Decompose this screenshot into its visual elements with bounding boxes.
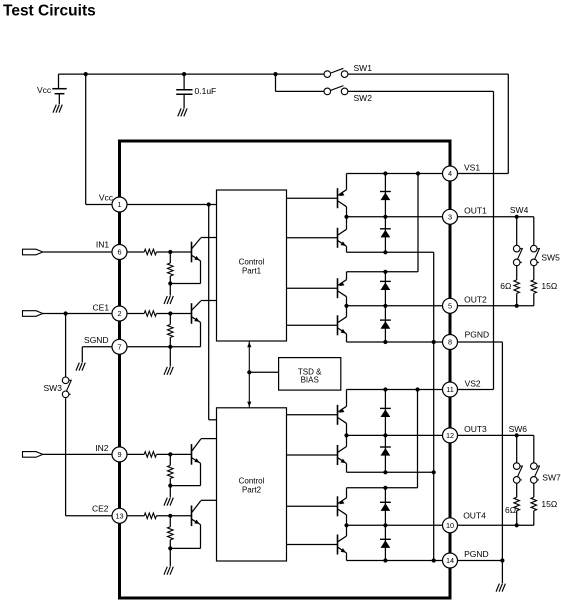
svg-text:13: 13 — [115, 511, 123, 520]
wire: pulldown top (CE1) — [169, 314, 171, 325]
transistor Q11 (IN2 input) — [192, 439, 201, 465]
junction: CE1 / SW3 branch — [64, 311, 68, 315]
junction: PGND2 / long vertical — [432, 558, 436, 562]
wire: emitter rail 2 — [347, 471, 434, 473]
svg-text:OUT4: OUT4 — [463, 511, 486, 521]
wire: SW6 to 6ohm resistor — [516, 483, 518, 497]
wire: pin10 OUT4 out — [458, 524, 534, 526]
junction: Vcc rail / SW2 branch — [273, 72, 277, 76]
wire: PGND rail 2 — [347, 560, 443, 562]
junction: PGND2 / ground vertical — [500, 558, 504, 562]
svg-text:OUT2: OUT2 — [464, 294, 487, 304]
svg-text:8: 8 — [448, 338, 452, 347]
wire: SW6 branch upper — [516, 435, 518, 463]
wire: emitter vertical (IN1) — [200, 261, 202, 284]
wire: pin11 VS2 out — [458, 389, 494, 391]
switch SW2 — [324, 86, 348, 95]
junction: CE2 base / pulldown — [168, 514, 172, 518]
svg-text:10: 10 — [446, 521, 454, 530]
junction: CE1 emitter node — [168, 345, 172, 349]
transistor Q4 (NPN low-side OUT2) — [338, 306, 347, 342]
wire: bridge4 VS rail — [347, 487, 418, 489]
svg-text:3: 3 — [448, 212, 452, 221]
resistor R2 pulldown (IN1) — [168, 263, 174, 276]
diode D4 — [380, 306, 391, 342]
transistor Q6 (NPN low-side OUT3) — [338, 435, 347, 472]
resistor R7 series (CE2) — [144, 513, 156, 519]
svg-text:12: 12 — [446, 431, 454, 440]
transistor Q7 (PNP high-side OUT4) — [338, 488, 347, 526]
resistor 15 ohm (ch2) — [531, 497, 537, 511]
switch SW7 — [531, 463, 540, 483]
junction: OUT3 / Q5-Q6 — [344, 433, 348, 437]
junction: VS1 / feed to lower bridge — [416, 171, 420, 175]
wire: SW5 branch upper — [533, 217, 535, 246]
svg-text:CE1: CE1 — [93, 302, 110, 312]
wire: emitter node to ground (CE1) — [169, 347, 171, 367]
svg-text:2: 2 — [117, 309, 121, 318]
svg-text:PGND: PGND — [464, 549, 489, 559]
wire: collector to control box (CE1) — [201, 300, 217, 302]
ground CE1 stage — [164, 367, 173, 375]
junction: OUT1 / Q1-Q2 — [344, 215, 348, 219]
wire: SGND down to ground — [81, 347, 83, 362]
diode D2 — [380, 217, 391, 253]
svg-text:IN2: IN2 — [95, 443, 109, 453]
wire: OUT3 rail — [347, 434, 443, 436]
wire: pulldown top (CE2) — [169, 516, 171, 527]
svg-text:7: 7 — [117, 342, 121, 351]
input flag CE1 — [23, 311, 43, 317]
pin 14 PGND — [443, 553, 458, 568]
wire: 6ohm to OUT4 — [516, 511, 518, 526]
ground under 0.1uF cap — [178, 108, 187, 116]
wire: 15ohm to OUT2 — [533, 293, 535, 305]
pin 8 PGND — [443, 335, 458, 350]
junction: VS2 / diode D5 — [383, 387, 387, 391]
transistor Q3 (PNP high-side OUT2) — [338, 272, 347, 306]
wire: Vcc vertical to Part2 — [208, 205, 210, 420]
pin 7 SGND — [112, 339, 127, 354]
svg-text:CE2: CE2 — [92, 504, 109, 514]
wire: OUT2 rail — [347, 305, 443, 307]
transistor Q2 (NPN low-side OUT1) — [338, 217, 347, 253]
wire: OUT1 rail — [347, 216, 443, 218]
svg-text:6Ω: 6Ω — [505, 505, 516, 515]
wire: VS2 rail — [347, 389, 443, 391]
resistor 6 ohm (ch1) — [514, 280, 520, 294]
wire: Vcc branch to pin1 — [86, 204, 112, 206]
wire: pin5 OUT2 out — [458, 305, 534, 307]
svg-text:PGND: PGND — [465, 330, 490, 340]
IC package outline — [120, 141, 451, 598]
wire: PGND vertical to ground — [501, 342, 503, 583]
wire: pulldown bottom (CE2) — [169, 540, 171, 549]
svg-text:SW3: SW3 — [44, 383, 63, 393]
transistor Q8 (NPN low-side OUT4) — [338, 525, 347, 560]
transistor Q10 (CE1 input) — [192, 301, 201, 324]
pin 6 IN1 — [112, 245, 127, 260]
wire: base drive to Q8 — [287, 544, 338, 546]
wire: pin14 PGND out — [458, 560, 503, 562]
junction: IN2 emitter node — [168, 484, 172, 488]
wire: emitter row (IN2) — [170, 485, 200, 487]
wire: pin to series resistor (IN1) — [127, 251, 144, 253]
wire: SGND left segment — [82, 346, 112, 348]
wire: CE1 down to SW3 — [65, 314, 67, 378]
svg-text:6Ω: 6Ω — [500, 281, 511, 291]
diode D1 — [380, 174, 391, 217]
wire: base drive to Q7 — [287, 505, 338, 507]
resistor R4 pulldown (CE1) — [168, 325, 174, 338]
svg-text:1: 1 — [117, 200, 121, 209]
diode D5 — [380, 390, 391, 436]
switch SW5 — [531, 245, 540, 265]
wire: pin4 VS1 out — [458, 173, 509, 175]
junction: PGND1 / diode D4 — [383, 340, 387, 344]
junction: link / TSD&BIAS — [247, 370, 251, 374]
ground IN2 stage — [164, 498, 173, 506]
wire: base drive to Q4 — [287, 324, 338, 326]
junction: Vcc rail / 0.1uF cap — [182, 72, 186, 76]
wire: OUT4 rail — [347, 524, 443, 526]
svg-text:SW6: SW6 — [509, 424, 528, 434]
battery Vcc (supply symbol) — [52, 89, 66, 94]
switch SW4 — [513, 245, 522, 265]
diode D8 — [380, 525, 391, 560]
block TSD & BIAS — [279, 358, 341, 391]
junction: bridge4 rail / diode D7 — [383, 486, 387, 490]
svg-text:VS1: VS1 — [464, 163, 480, 173]
wire: SGND row pin7 to CE1 emitter — [127, 346, 201, 348]
wire: resistor to base (CE1) — [156, 313, 191, 315]
diode D3 — [380, 272, 391, 306]
resistor R3 series (CE1) — [144, 311, 156, 317]
svg-text:OUT1: OUT1 — [464, 206, 487, 216]
junction: OUT3 / diode — [383, 433, 387, 437]
pin 5 OUT2 — [443, 298, 458, 313]
wire: 6ohm to OUT2 — [516, 293, 518, 305]
arrowhead up (to Part1) — [247, 342, 251, 347]
block Control Part1 — [217, 190, 287, 341]
wire: Vcc into Control Part2 — [209, 419, 217, 421]
block Control Part2 — [217, 408, 287, 561]
wire: VS feed vertical to bridge2 — [417, 174, 419, 272]
svg-text:14: 14 — [446, 556, 454, 565]
junction: CE2 emitter node — [168, 546, 172, 550]
svg-text:Vcc: Vcc — [99, 193, 114, 203]
junction: OUT3 / SW6 branch — [515, 433, 519, 437]
junction: IN2 base / pulldown — [168, 452, 172, 456]
wire: collector to control box (IN2) — [201, 438, 217, 440]
junction: OUT2 / Q3-Q4 — [344, 304, 348, 308]
junction: OUT4 / SW6 branch — [515, 523, 519, 527]
wire: pin to series resistor (CE2) — [127, 515, 144, 517]
pin 1 Vcc — [112, 197, 127, 212]
wire: pulldown bottom (IN1) — [169, 276, 171, 284]
wire: SW2 down to VS2 — [493, 91, 495, 389]
wire: emitter vertical (CE1) — [200, 322, 202, 347]
diode D6 — [380, 435, 391, 472]
wire: SW4 to 6ohm resistor — [516, 266, 518, 280]
wire: emitter rail 1 — [347, 251, 434, 253]
svg-text:OUT3: OUT3 — [464, 424, 487, 434]
wire: SW2 branch drop — [275, 74, 277, 91]
wire: SW1 down to VS1 — [507, 74, 509, 173]
svg-text:4: 4 — [448, 169, 452, 178]
pin 13 CE2 — [112, 508, 127, 523]
ground external SGND — [76, 363, 85, 371]
transistor Q5 (PNP high-side OUT3) — [338, 390, 347, 436]
wire: emitter node to ground (IN1) — [169, 284, 171, 296]
wire: base drive to Q3 — [287, 287, 338, 289]
wire: emitter vertical (IN2) — [200, 463, 202, 485]
wire: CE1 flag to pin2 — [43, 313, 112, 315]
svg-text:11: 11 — [446, 385, 454, 394]
junction: OUT4 / diode — [383, 523, 387, 527]
ground IN1 stage — [164, 296, 173, 304]
pin 11 VS2 — [443, 382, 458, 397]
ground PGND external — [496, 584, 505, 592]
wire: feed to SW2 — [276, 90, 324, 92]
wire: SW1 to right corner — [348, 73, 509, 75]
wire: bridge2 VS rail — [347, 271, 419, 273]
junction: VS2 / feed to lower bridge — [415, 387, 419, 391]
junction: OUT1 / diode — [383, 215, 387, 219]
wire: link to TSD&BIAS — [249, 371, 278, 373]
wire: pulldown bottom (CE1) — [169, 338, 171, 347]
wire: emitter node to ground (CE2) — [169, 548, 171, 566]
junction: OUT2 / SW4 branch — [515, 304, 519, 308]
pin 4 VS1 — [443, 166, 458, 181]
svg-text:SW7: SW7 — [542, 473, 561, 483]
input flag IN1 — [23, 249, 43, 255]
wire: Vcc source drop — [58, 74, 60, 89]
wire: base drive to Q6 — [287, 454, 338, 456]
wire: emitter rail down to PGND (long vertical) — [433, 252, 435, 560]
junction: IN1 emitter node — [168, 281, 172, 285]
junction: CE1 base / pulldown — [168, 311, 172, 315]
wire: VS1 rail — [347, 173, 443, 175]
wire: base drive to Q2 — [287, 237, 338, 239]
svg-text:6: 6 — [117, 248, 121, 257]
wire: emitter vertical (CE2) — [200, 525, 202, 549]
wire: collector to control box (CE2) — [201, 499, 217, 501]
junction: emitter rail 2 / diode D6 — [383, 470, 387, 474]
wire: Part1-Part2 link — [248, 341, 250, 408]
svg-text:IN1: IN1 — [96, 239, 110, 249]
wire: 15ohm to OUT4 — [533, 511, 535, 526]
svg-text:0.1uF: 0.1uF — [195, 86, 217, 96]
wire: SW5 to 15ohm resistor — [533, 266, 535, 280]
wire: resistor to base (IN2) — [156, 453, 191, 455]
pin 9 IN2 — [112, 447, 127, 462]
svg-text:Part2: Part2 — [242, 485, 262, 494]
wire: cap to ground — [183, 94, 185, 108]
switch SW6 — [513, 463, 522, 483]
svg-text:BIAS: BIAS — [301, 375, 319, 384]
wire: pulldown top (IN1) — [169, 252, 171, 263]
resistor R6 pulldown (IN2) — [168, 465, 174, 478]
wire: pulldown top (IN2) — [169, 454, 171, 465]
resistor R5 series (IN2) — [144, 452, 156, 458]
resistor R8 pulldown (CE2) — [168, 527, 174, 540]
svg-text:Part1: Part1 — [242, 266, 262, 275]
svg-text:15Ω: 15Ω — [541, 499, 557, 509]
junction: emitter rail 2 / long vertical — [432, 470, 436, 474]
junction: IN1 base / pulldown — [168, 250, 172, 254]
capacitor 0.1uF — [176, 90, 192, 94]
pin 10 OUT4 — [443, 518, 458, 533]
wire: pin3 OUT1 out — [458, 216, 534, 218]
pin 2 CE1 — [112, 306, 127, 321]
svg-text:Control: Control — [239, 476, 265, 485]
wire: pin8 PGND out — [458, 341, 503, 343]
pin 3 OUT1 — [443, 209, 458, 224]
wire: pulldown bottom (IN2) — [169, 478, 171, 485]
svg-text:9: 9 — [117, 450, 121, 459]
wire: SW7 to 15ohm resistor — [533, 483, 535, 497]
junction: Vcc distribution branch — [207, 202, 211, 206]
junction: OUT4 / Q7-Q8 — [344, 523, 348, 527]
wire: SW2 to right corner — [348, 90, 494, 92]
wire: SW3 down to CE2 corner — [65, 397, 67, 515]
wire: VS feed vertical to bridge4 — [417, 390, 419, 488]
svg-text:15Ω: 15Ω — [541, 281, 557, 291]
wire: cap drop — [183, 74, 185, 90]
transistor Q9 (IN1 input) — [192, 238, 201, 262]
svg-text:SW5: SW5 — [541, 253, 560, 263]
wire: emitter node to ground (IN2) — [169, 486, 171, 498]
wire: corner to pin13 CE2 — [66, 515, 112, 517]
wire: base drive to Q1 — [287, 197, 338, 199]
svg-text:5: 5 — [448, 301, 452, 310]
wire: emitter row (CE2) — [170, 547, 200, 549]
svg-text:Vcc: Vcc — [37, 85, 52, 95]
wire: pin1 Vcc to Control Part1 — [127, 204, 217, 206]
resistor 6 ohm (ch2) — [514, 497, 520, 511]
svg-text:SW2: SW2 — [354, 93, 373, 103]
wire: IN2 flag to pin9 — [43, 453, 112, 455]
junction: PGND1 / long vertical — [432, 340, 436, 344]
wire: emitter row (IN1) — [170, 283, 200, 285]
junction: PGND2 / diode D8 — [383, 558, 387, 562]
junction: bridge2 rail / diode D3 — [383, 270, 387, 274]
wire: collector to control box (IN1) — [201, 237, 217, 239]
junction: emitter rail 1 / diode D2 — [383, 250, 387, 254]
junction: Vcc rail / pin1 branch — [84, 72, 88, 76]
transistor Q1 (PNP high-side OUT1) — [338, 174, 347, 217]
wire: IN1 flag to pin6 — [43, 251, 112, 253]
wire: battery to ground — [58, 94, 60, 105]
wire: base drive to Q5 — [287, 414, 338, 416]
wire: PGND rail 1 — [347, 341, 443, 343]
switch SW1 — [324, 68, 348, 77]
ground under Vcc supply — [53, 105, 62, 113]
arrowhead down (to Part2) — [247, 402, 251, 407]
svg-text:SGND: SGND — [84, 335, 109, 345]
resistor 15 ohm (ch1) — [531, 280, 537, 294]
diode D7 — [380, 488, 391, 526]
wire: SW7 branch upper — [533, 435, 535, 463]
junction: OUT1 / SW4 branch — [515, 215, 519, 219]
wire: pin12 OUT3 out — [458, 434, 534, 436]
svg-text:SW4: SW4 — [510, 205, 529, 215]
junction: OUT2 / diode — [383, 304, 387, 308]
svg-text:SW1: SW1 — [354, 63, 373, 73]
resistor R1 series (IN1) — [144, 249, 156, 255]
input flag IN2 — [23, 452, 43, 458]
pin 12 OUT3 — [443, 428, 458, 443]
ground CE2 stage — [164, 567, 173, 575]
wire: top Vcc rail — [59, 73, 324, 75]
wire: resistor to base (CE2) — [156, 515, 191, 517]
wire: Vcc branch down to pin1 — [85, 74, 87, 204]
junction: VS1 / diode D1 — [383, 171, 387, 175]
switch SW3 — [62, 377, 71, 398]
wire: resistor to base (IN1) — [156, 251, 191, 253]
svg-text:VS2: VS2 — [465, 378, 481, 388]
wire: SW4 branch upper — [516, 217, 518, 246]
wire: pin to series resistor (CE1) — [127, 313, 144, 315]
svg-text:Control: Control — [239, 257, 265, 266]
svg-text:Test Circuits: Test Circuits — [3, 3, 96, 20]
wire: pin to series resistor (IN2) — [127, 453, 144, 455]
transistor Q12 (CE2 input) — [192, 501, 201, 526]
